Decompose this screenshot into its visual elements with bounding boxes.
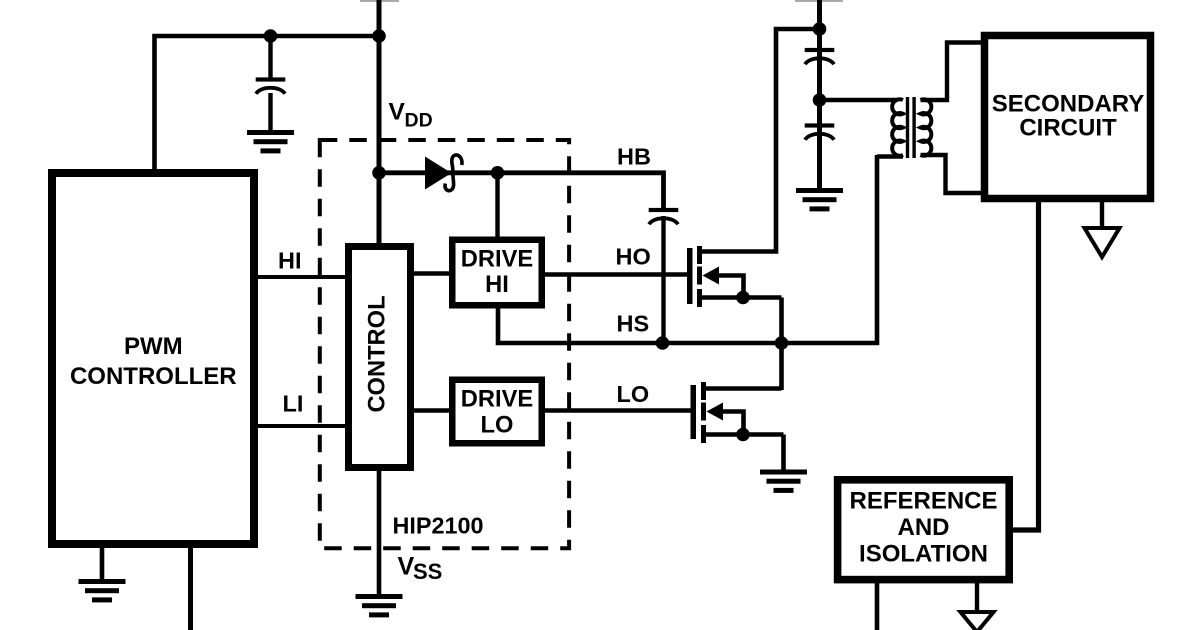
svg-text:LO: LO	[617, 381, 650, 407]
svg-text:CIRCUIT: CIRCUIT	[1019, 114, 1117, 141]
svg-text:CONTROLLER: CONTROLLER	[70, 363, 237, 390]
svg-text:PWM: PWM	[124, 333, 183, 360]
svg-text:DRIVE: DRIVE	[461, 247, 533, 273]
svg-text:DD: DD	[405, 110, 433, 132]
svg-text:HS: HS	[617, 311, 650, 337]
svg-text:V: V	[389, 99, 406, 126]
svg-text:DRIVE: DRIVE	[461, 387, 533, 413]
svg-text:HI: HI	[485, 272, 509, 298]
svg-text:V: V	[398, 553, 415, 581]
svg-text:SECONDARY: SECONDARY	[992, 90, 1144, 117]
svg-text:LI: LI	[283, 391, 304, 417]
svg-text:LO: LO	[481, 412, 514, 438]
svg-text:CONTROL: CONTROL	[365, 295, 391, 412]
svg-text:HB: HB	[617, 144, 651, 170]
svg-text:ISOLATION: ISOLATION	[859, 541, 988, 568]
svg-text:SS: SS	[413, 559, 442, 584]
svg-text:AND: AND	[898, 514, 950, 541]
svg-text:REFERENCE: REFERENCE	[849, 488, 997, 515]
svg-text:HO: HO	[616, 244, 651, 270]
svg-text:HIP2100: HIP2100	[393, 513, 484, 539]
svg-text:HI: HI	[278, 248, 302, 274]
